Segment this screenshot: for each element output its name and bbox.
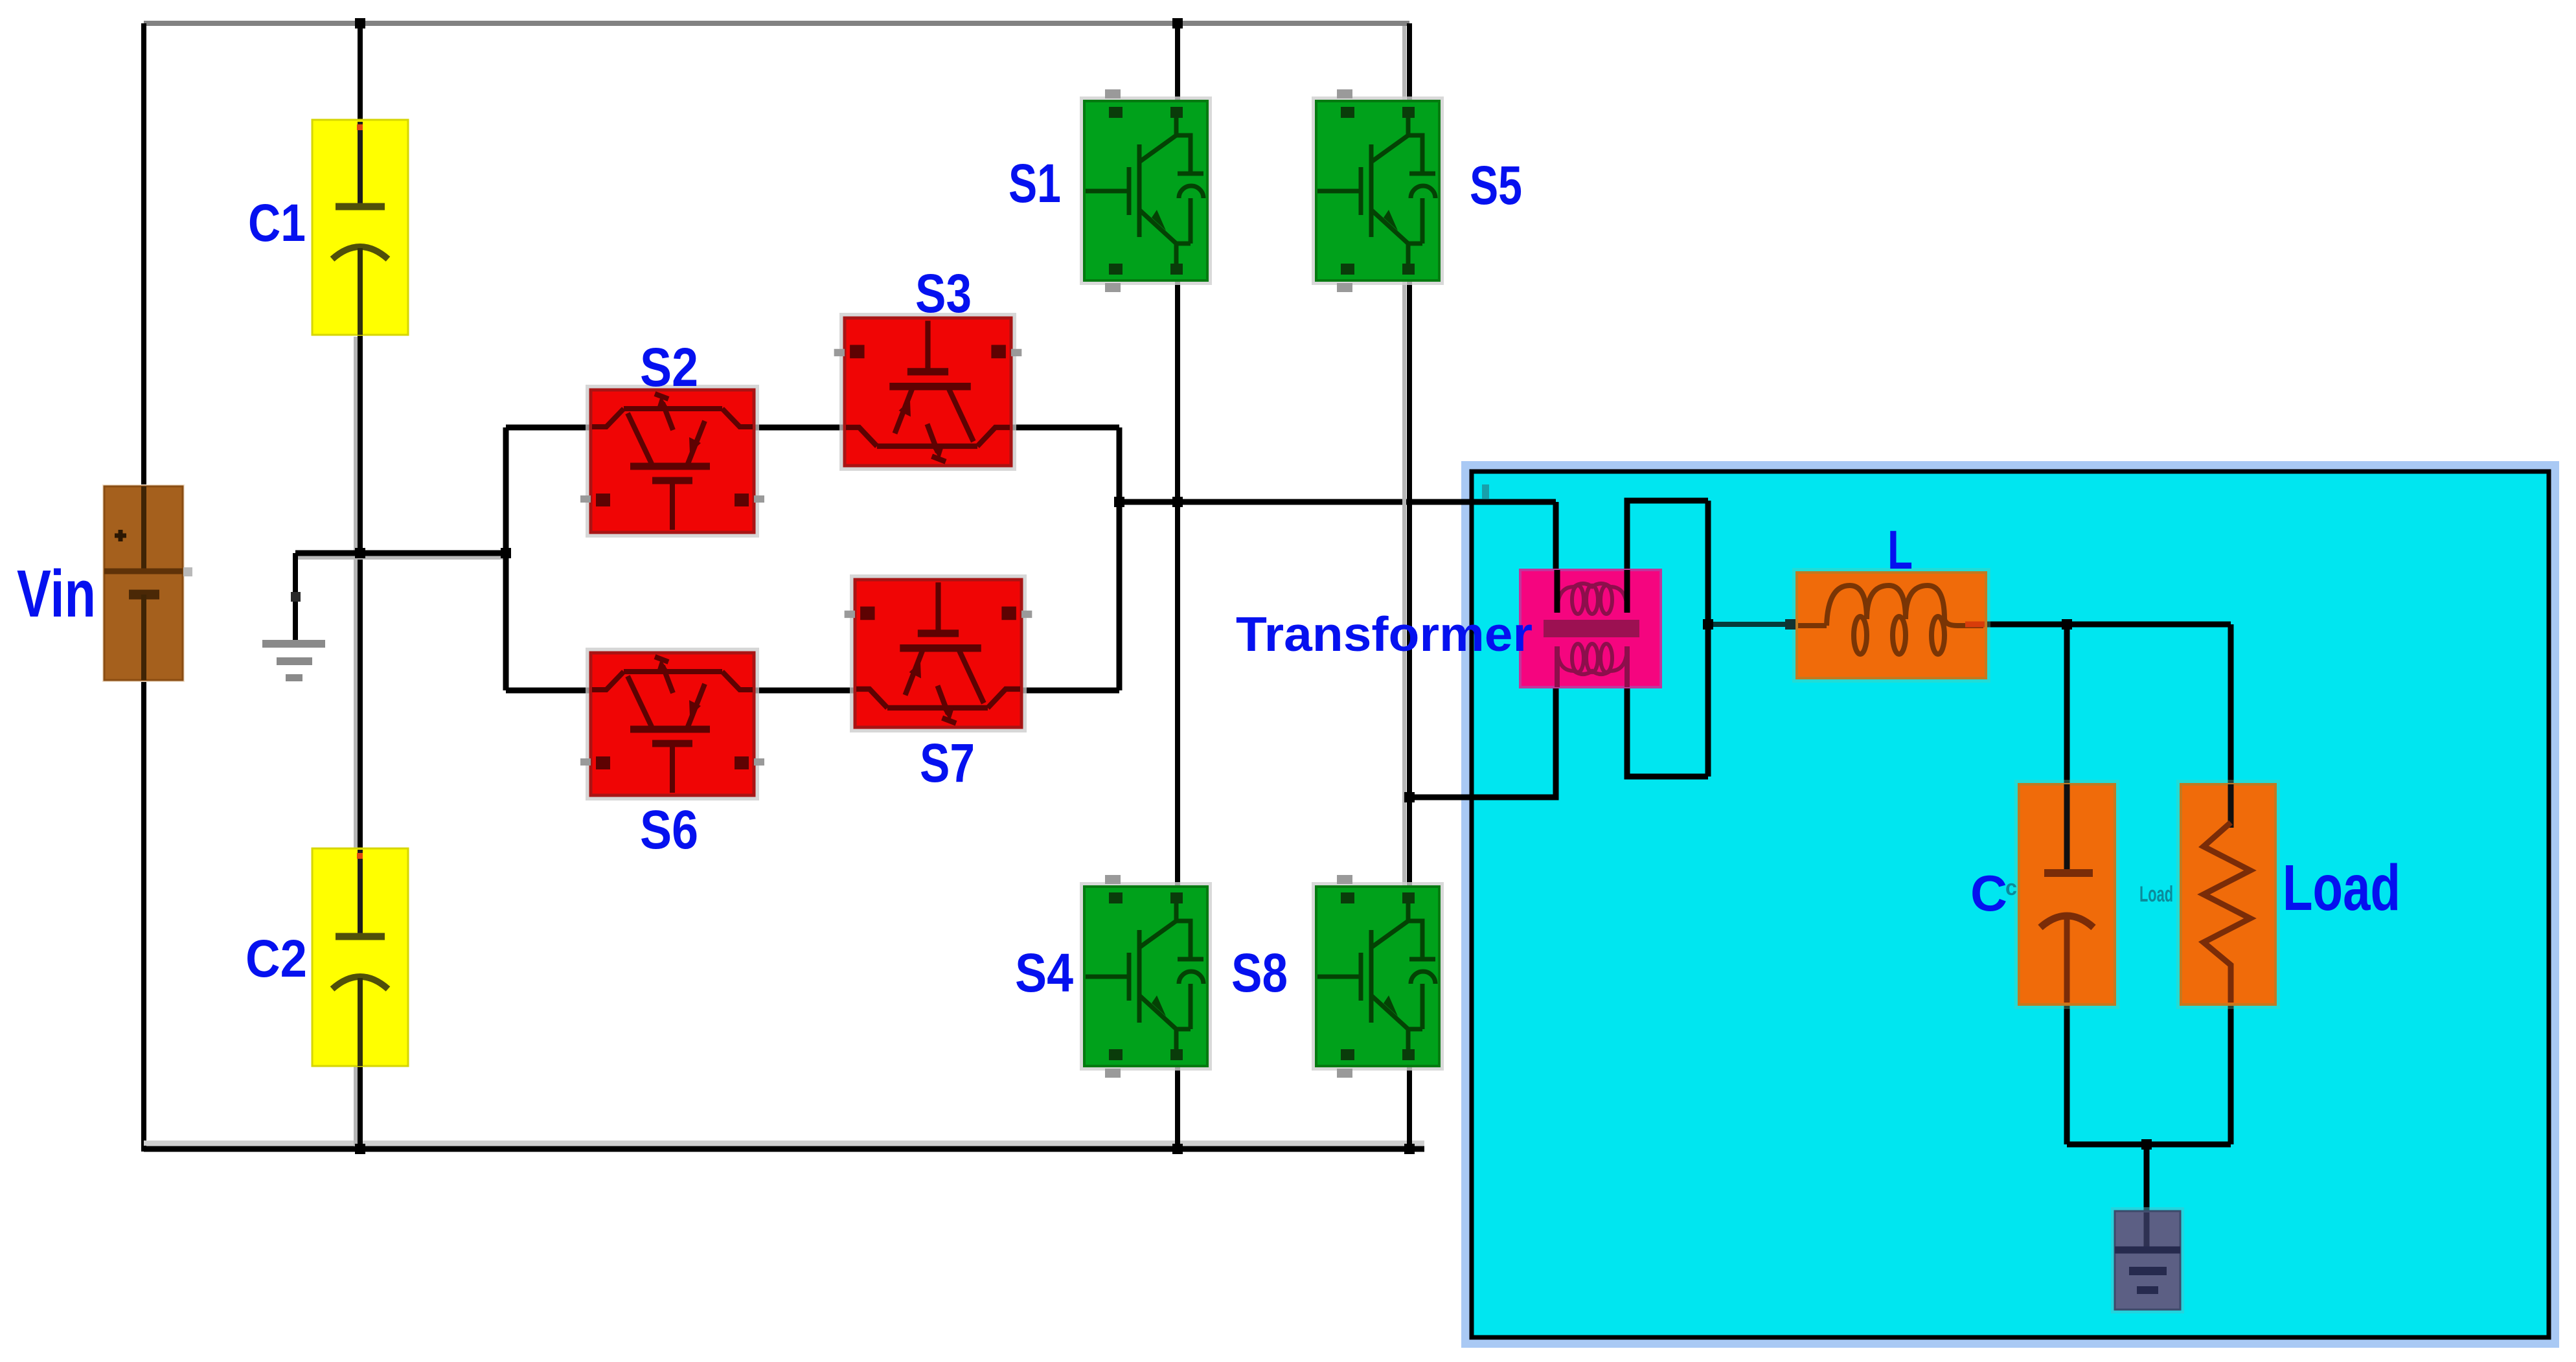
- wire S5-S8 leg gray twin: [1402, 26, 1406, 1062]
- node tie tap: [1114, 497, 1124, 507]
- svg-text:Vin: Vin: [17, 556, 96, 631]
- wire top rail: [144, 21, 1409, 26]
- node leg1 top: [1172, 18, 1183, 28]
- capacitor C1: [312, 120, 408, 335]
- wire S5-S8 leg mid: [1407, 279, 1412, 888]
- wire S3-S7 tie bus: [1117, 427, 1123, 690]
- load-side cyan region: [1472, 471, 2549, 1337]
- wire ground stem output: [2144, 1144, 2150, 1216]
- wire bus to S6: [506, 688, 592, 694]
- wire S8 bottom: [1407, 1065, 1412, 1149]
- source Vin: [102, 484, 192, 682]
- svg-text:S4: S4: [1015, 942, 1073, 1003]
- wire bottom rail gray twin: [144, 1141, 1424, 1146]
- wire leg1 to primary top: [1119, 499, 1556, 505]
- switch S1: [1080, 89, 1212, 292]
- wire S3 out: [1010, 425, 1119, 431]
- wire S2 to S3: [753, 425, 846, 431]
- node C out tap: [2062, 619, 2072, 630]
- wire C out bottom: [2064, 1003, 2070, 1144]
- wire to L: [1708, 622, 1807, 627]
- wire mid bus horizontal: [295, 550, 506, 556]
- wire S1-S4 leg mid: [1175, 279, 1180, 888]
- svg-text:S6: S6: [640, 799, 698, 860]
- node bus corner: [501, 548, 511, 558]
- wire output bottom link: [2067, 1142, 2231, 1148]
- node mid junction: [355, 548, 365, 558]
- wire S4 bottom: [1175, 1065, 1180, 1149]
- switch S3: [834, 313, 1022, 471]
- wire S5-S8 leg top: [1407, 23, 1412, 102]
- wire secondary bus: [1705, 501, 1711, 777]
- resistor Load: [2176, 780, 2280, 1009]
- node leg2 bottom: [1404, 1144, 1415, 1154]
- svg-text:S8: S8: [1231, 942, 1288, 1003]
- wire primary top lead: [1553, 502, 1559, 611]
- svg-text:Transformer: Transformer: [1236, 607, 1533, 661]
- wire ground stub: [293, 553, 298, 641]
- wire S7 out: [1020, 688, 1119, 694]
- wire left bus upper: [141, 23, 146, 486]
- node C1 top: [355, 18, 365, 28]
- ground input: [262, 592, 325, 681]
- wire L out: [1976, 622, 2231, 628]
- svg-text:Load: Load: [2283, 852, 2400, 924]
- switch S4: [1080, 875, 1212, 1078]
- node leg1 mid: [1172, 497, 1183, 507]
- switch S6: [580, 648, 764, 800]
- wire secondary top: [1627, 501, 1708, 611]
- svg-text:S1: S1: [1009, 153, 1061, 214]
- switch S7: [845, 574, 1032, 732]
- svg-text:C2: C2: [245, 929, 307, 988]
- wire secondary bottom: [1627, 646, 1708, 777]
- capacitor C2: [312, 848, 408, 1066]
- node output gnd tap: [2141, 1139, 2152, 1150]
- node leg2 mid: [1404, 792, 1415, 802]
- wire bottom rail: [144, 1146, 1424, 1152]
- wire C out drop: [2064, 624, 2070, 874]
- capacitor C output: [2014, 780, 2119, 1009]
- wire C1-C2 link: [358, 332, 363, 851]
- wire S2-S6 bus: [503, 427, 509, 690]
- switch S8: [1312, 875, 1444, 1078]
- svg-text:c: c: [2005, 876, 2017, 900]
- svg-text:S7: S7: [920, 732, 975, 793]
- svg-text:C: C: [1970, 865, 2007, 922]
- node C2 bottom: [355, 1144, 365, 1154]
- svg-text:L: L: [1887, 519, 1913, 580]
- switch S5: [1312, 89, 1444, 292]
- switch S2: [580, 385, 764, 538]
- wire S1-S4 leg top: [1175, 23, 1180, 102]
- svg-text:Load: Load: [2139, 882, 2173, 907]
- wire left bus lower: [141, 680, 146, 1152]
- wire primary bottom lead: [1409, 685, 1556, 797]
- svg-text:S3: S3: [915, 263, 972, 324]
- node leg1 bottom: [1172, 1144, 1183, 1154]
- svg-text:S2: S2: [640, 337, 698, 398]
- ground output block: [2111, 1207, 2184, 1313]
- svg-text:C1: C1: [248, 194, 306, 253]
- inductor L: [1785, 568, 1990, 683]
- wire mid bus gray twin: [297, 556, 506, 560]
- node secondary L tap: [1703, 619, 1713, 630]
- wire S6 to S7: [753, 688, 856, 694]
- load-side highlight halo: [1466, 466, 2554, 1343]
- port mark: [1482, 484, 1489, 499]
- svg-text:S5: S5: [1470, 155, 1522, 216]
- wire C1 top lead: [358, 23, 363, 123]
- wire Load bottom: [2228, 1003, 2234, 1144]
- wire C-branch gray twin: [354, 337, 358, 1146]
- wire bus to S2: [506, 425, 592, 431]
- wire C2 bottom lead: [358, 1063, 363, 1149]
- wire Load drop: [2228, 624, 2234, 832]
- transformer: [1520, 570, 1661, 687]
